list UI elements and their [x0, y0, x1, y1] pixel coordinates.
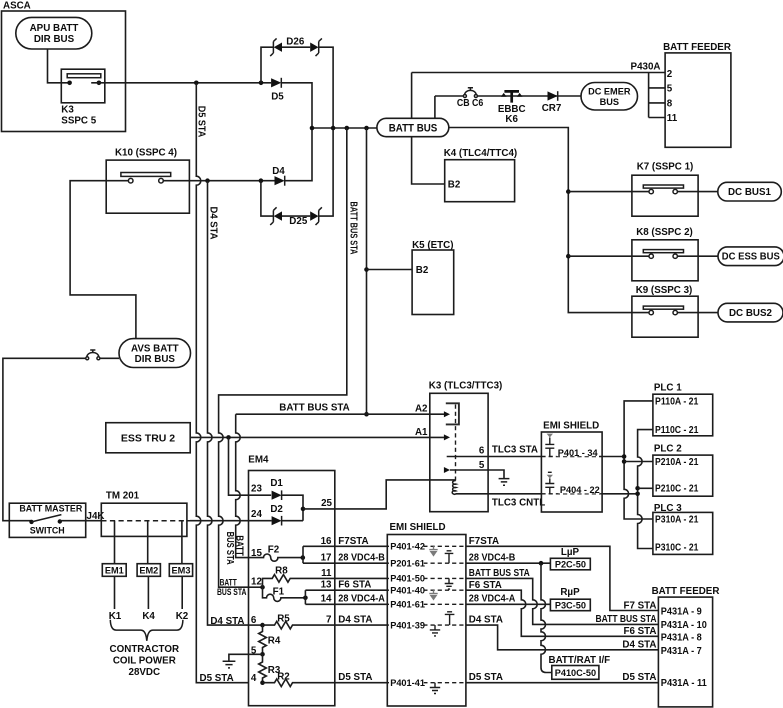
svg-text:2: 2 — [667, 69, 673, 80]
feedthrough capacitor (P404-22) — [545, 472, 554, 494]
svg-text:F1: F1 — [273, 587, 285, 598]
net label BATT BUS STA (vertical, near EM4) — [224, 532, 245, 565]
svg-text:P431A - 11: P431A - 11 — [661, 678, 708, 689]
box LuP P2C-50 — [550, 547, 590, 570]
svg-text:D5 STA: D5 STA — [622, 672, 656, 683]
wire BATT BUS row — [312, 127, 377, 129]
svg-text:AVS BATT: AVS BATT — [131, 343, 179, 354]
svg-text:BATT: BATT — [220, 578, 237, 588]
wire K7 to DC BUS1 — [677, 191, 717, 193]
svg-text:EM2: EM2 — [139, 566, 158, 576]
wire APU bus to K3 contact — [48, 49, 70, 83]
svg-text:DC ESS BUS: DC ESS BUS — [722, 252, 780, 263]
bus DC EMER BUS — [581, 83, 638, 111]
circuit breaker CB C6 — [457, 88, 484, 109]
coil K3 — [452, 481, 456, 495]
node pin 4 junction — [260, 680, 265, 685]
svg-text:DIR BUS: DIR BUS — [135, 354, 176, 365]
wire P401-50 dashed row — [387, 577, 466, 579]
svg-text:BATT BUS: BATT BUS — [389, 123, 438, 135]
svg-text:P201-61: P201-61 — [390, 558, 425, 568]
svg-text:DC BUS1: DC BUS1 — [728, 187, 772, 198]
node pin 6 junction — [260, 623, 265, 628]
feedthrough capacitor (gray, P401-42) — [429, 546, 437, 556]
svg-text:TLC3 STA: TLC3 STA — [492, 444, 538, 455]
svg-text:EM4: EM4 — [248, 454, 269, 465]
wire K9 to DC BUS2 — [677, 312, 718, 314]
wire pin 5 to ground — [229, 654, 263, 661]
wire TLC3 CNTL to PLC column — [602, 493, 638, 495]
wire TM drop to EM3 — [181, 521, 183, 564]
svg-text:K9 (SSPC 3): K9 (SSPC 3) — [636, 285, 693, 296]
node D1-D2 join — [301, 507, 306, 512]
svg-text:F6 STA: F6 STA — [469, 580, 502, 591]
svg-text:TM 201: TM 201 — [106, 491, 140, 502]
wire P401-40 dashed row — [387, 589, 466, 591]
svg-text:LµP: LµP — [561, 547, 580, 558]
node K5 branch junction — [364, 267, 369, 272]
svg-text:D4 STA: D4 STA — [210, 616, 244, 627]
svg-text:D5: D5 — [271, 91, 284, 102]
connector P430A pin bus — [649, 73, 666, 118]
wire K8 to DC ESS BUS — [677, 255, 718, 257]
wire F7STA to feeder — [466, 546, 659, 610]
node pin 12 junction — [260, 585, 265, 590]
svg-text:P401-42: P401-42 — [390, 542, 425, 552]
svg-text:K3 (TLC3/TTC3): K3 (TLC3/TTC3) — [429, 381, 502, 392]
svg-text:CB C6: CB C6 — [457, 98, 484, 109]
relay K3 (SSPC 5) — [61, 69, 105, 127]
wire P201-61 dashed row — [387, 562, 466, 564]
wire DC EMER row — [435, 95, 581, 97]
node K8 junction — [566, 254, 571, 259]
wire K10 output to D4 anode — [163, 180, 274, 182]
box ESS TRU 2 — [106, 423, 190, 453]
node D4 STA junction — [205, 178, 210, 183]
pin arrow A2 — [444, 411, 450, 417]
wire switch to TM 201 — [60, 520, 102, 523]
wire TM drop to EM1 — [114, 521, 116, 564]
fuse F1 — [263, 587, 306, 602]
wire branch to K5 B2 — [367, 269, 413, 271]
wire D2 cathode — [282, 520, 303, 522]
node ESS TRU branch junction — [226, 435, 231, 440]
wire J4K dashed row through TM 201 — [101, 520, 190, 522]
wire 28 VDC4-B to LuP — [466, 562, 551, 564]
svg-text:P401-39: P401-39 — [390, 620, 425, 630]
svg-text:DC EMER: DC EMER — [588, 87, 631, 97]
contact actuator dashed line — [455, 405, 457, 481]
svg-text:K10 (SSPC 4): K10 (SSPC 4) — [115, 148, 177, 159]
box BATT/RAT I/F P410C-50 — [549, 655, 611, 680]
svg-text:EM1: EM1 — [105, 566, 124, 576]
wire D5 cathode to BATT BUS — [281, 83, 312, 128]
box EM3 — [169, 564, 192, 577]
relay K5 (ETC) — [412, 240, 454, 315]
wire EM3 to K2 — [181, 576, 183, 609]
svg-text:14: 14 — [321, 594, 332, 605]
box BATT FEEDER (bottom) — [652, 586, 720, 707]
svg-text:D4 STA: D4 STA — [469, 615, 503, 626]
node F1 output junction — [303, 596, 308, 601]
svg-text:P431A - 7: P431A - 7 — [661, 646, 703, 657]
node D5 STA junction — [194, 81, 199, 86]
svg-text:F2: F2 — [268, 545, 280, 556]
wire P401-39 dashed row — [387, 624, 466, 626]
svg-text:D1: D1 — [270, 478, 283, 489]
wire branch to P210C — [638, 487, 653, 489]
wire pin 24 inside — [249, 520, 272, 522]
svg-text:DC BUS2: DC BUS2 — [729, 308, 773, 319]
box ASCA — [2, 11, 126, 132]
svg-text:K7 (SSPC 1): K7 (SSPC 1) — [637, 161, 694, 172]
box PLC 3 — [653, 503, 713, 554]
wire pin 25 row — [303, 508, 335, 510]
node LuP branch junction — [539, 561, 544, 566]
wire branch down to BATT/RAT I/F — [541, 563, 552, 672]
ground capacitor (below P401-39) — [430, 625, 440, 636]
svg-text:A1: A1 — [415, 427, 428, 438]
node pin 5 junction — [260, 652, 265, 657]
svg-text:6: 6 — [251, 615, 257, 626]
diode D1 — [270, 478, 283, 500]
node line B junction — [635, 486, 640, 491]
svg-text:D4 STA: D4 STA — [622, 640, 656, 651]
svg-text:BATT BUS STA: BATT BUS STA — [596, 614, 657, 625]
wire BATT BUS STA to feeder — [466, 578, 659, 624]
wire pin 6 inside — [249, 624, 263, 626]
svg-text:CONTRACTOR: CONTRACTOR — [110, 644, 179, 655]
resistor R5 — [263, 614, 388, 629]
svg-text:P430A: P430A — [631, 61, 661, 72]
wire branch to P210A — [624, 461, 653, 463]
wire branch down to EM4 pin 23 — [229, 437, 272, 495]
svg-text:D5 STA: D5 STA — [200, 673, 234, 684]
svg-text:A2: A2 — [415, 404, 428, 415]
diode D4 — [272, 166, 285, 186]
relay K9 (SSPC 3) — [632, 285, 698, 337]
box PLC 2 — [653, 444, 713, 497]
svg-text:K3: K3 — [61, 105, 74, 116]
wire A2 corner down to EM4 pin 15 — [236, 414, 249, 557]
wire TM drop to EM2 — [147, 521, 149, 564]
svg-text:D25: D25 — [289, 216, 308, 227]
svg-text:D5 STA: D5 STA — [338, 672, 372, 683]
node line A junction — [622, 454, 627, 459]
resistor R3 — [259, 654, 281, 682]
svg-text:BATT FEEDER: BATT FEEDER — [663, 42, 731, 53]
svg-text:P401-61: P401-61 — [390, 600, 425, 610]
ground (pin 5) — [223, 661, 236, 668]
svg-text:RµP: RµP — [560, 587, 580, 598]
svg-text:R5: R5 — [277, 614, 290, 625]
svg-text:F7 STA: F7 STA — [623, 600, 656, 611]
contactor EBBC K6 — [498, 91, 526, 125]
wire D25 left leg — [261, 181, 274, 216]
svg-text:P410C-50: P410C-50 — [555, 668, 596, 678]
node junction — [310, 126, 315, 131]
switch BATT MASTER SWITCH — [9, 503, 85, 537]
svg-text:D5 STA: D5 STA — [469, 672, 503, 683]
diode D5 — [271, 78, 284, 103]
svg-text:EMI SHIELD: EMI SHIELD — [390, 522, 446, 533]
svg-text:F6 STA: F6 STA — [623, 626, 656, 637]
svg-text:BATT BUS STA: BATT BUS STA — [347, 202, 358, 255]
svg-text:D2: D2 — [270, 504, 283, 515]
fuse F2 — [249, 545, 303, 562]
svg-text:K6: K6 — [505, 114, 518, 125]
wire pin 17 row — [303, 562, 387, 564]
feedthrough capacitor (P401-39 upper) — [445, 612, 455, 625]
wire D5 STA to feeder — [466, 682, 659, 684]
svg-text:P310A - 21: P310A - 21 — [655, 514, 699, 525]
relay K8 (SSPC 2) — [632, 227, 698, 281]
box EM4 — [248, 454, 334, 705]
svg-text:APU BATT: APU BATT — [30, 23, 79, 34]
svg-text:ESS TRU 2: ESS TRU 2 — [121, 432, 175, 444]
wire pins 16/17 join — [302, 546, 304, 563]
svg-text:BATT/RAT I/F: BATT/RAT I/F — [549, 655, 611, 666]
wire coil feed from EM4 pin 25 — [335, 480, 456, 509]
svg-text:BATT BUS STA: BATT BUS STA — [279, 403, 349, 414]
wire BATT BUS STA to EM4 pin 12 — [219, 128, 347, 587]
svg-text:P431A - 9: P431A - 9 — [661, 607, 703, 618]
svg-text:P401 - 34: P401 - 34 — [558, 448, 599, 458]
wire J4K row to EM4 pin 24 — [190, 520, 249, 522]
wire breaker to BATT MASTER SWITCH — [3, 358, 86, 520]
svg-text:P431A - 10: P431A - 10 — [661, 620, 708, 631]
wire D1 cathode to pin 25 join — [282, 495, 303, 521]
wire ESS TRU 2 output to A1 — [190, 436, 444, 438]
diode CR7 — [542, 91, 562, 114]
svg-text:B2: B2 — [448, 180, 461, 191]
svg-text:D4: D4 — [272, 166, 285, 177]
wire D4 STA vertical run — [208, 181, 249, 625]
svg-text:K4: K4 — [142, 611, 155, 622]
diode D2 — [270, 504, 283, 525]
svg-text:COIL POWER: COIL POWER — [113, 655, 176, 666]
box EM1 — [102, 564, 126, 577]
svg-text:K5 (ETC): K5 (ETC) — [412, 240, 453, 251]
bus AVS BATT DIR BUS — [119, 339, 191, 368]
wire to K7 — [568, 191, 649, 193]
svg-text:EM3: EM3 — [172, 566, 191, 576]
wire EM2 to K4 — [147, 576, 149, 609]
bus BATT BUS — [377, 118, 449, 136]
wire D25 right leg to BATT BUS — [319, 128, 333, 216]
svg-text:28 VDC4-A: 28 VDC4-A — [338, 594, 385, 605]
wire pin 16 row — [303, 545, 387, 547]
wire A2 row (BATT BUS STA) — [236, 413, 445, 415]
relay K4 (TLC4/TTC4) — [444, 148, 517, 202]
box RuP P3C-50 — [550, 587, 590, 611]
svg-text:28VDC: 28VDC — [129, 667, 161, 678]
node K7 junction — [566, 189, 571, 194]
wire feed down to BATT BUS oval — [412, 73, 445, 185]
wire D5 STA vertical run — [196, 83, 248, 683]
svg-text:17: 17 — [321, 553, 332, 564]
wire D26 left leg — [261, 47, 273, 83]
svg-text:BATT BUS STA: BATT BUS STA — [469, 568, 530, 579]
svg-text:PLC 2: PLC 2 — [654, 444, 682, 455]
svg-text:DIR BUS: DIR BUS — [34, 34, 75, 45]
wire BATT BUS down to A2 row — [366, 128, 368, 414]
wire D4 cathode to BATT BUS — [285, 128, 312, 181]
brace contactor group — [110, 620, 183, 641]
svg-text:P401-40: P401-40 — [390, 585, 425, 595]
node D26 tap junction — [259, 81, 264, 86]
resistor R2 — [263, 672, 388, 687]
svg-text:P401-50: P401-50 — [390, 574, 425, 584]
wire K10 left to AVS bus — [70, 181, 136, 339]
svg-text:SSPC 5: SSPC 5 — [61, 116, 96, 127]
svg-text:K4 (TLC4/TTC4): K4 (TLC4/TTC4) — [444, 148, 517, 159]
svg-text:11: 11 — [321, 568, 332, 579]
node line B feed junction — [635, 492, 640, 497]
box BATT FEEDER (top) — [663, 42, 731, 148]
svg-text:P110A - 21: P110A - 21 — [655, 396, 699, 407]
relay K3 (TLC3/TTC3) — [429, 381, 502, 512]
node junction — [364, 126, 369, 131]
wire TLC3 CNTL (coil return) — [456, 493, 542, 495]
wire AVS bus left to breaker — [100, 357, 119, 359]
wire P401-41 dashed row — [387, 682, 466, 684]
svg-text:BATT FEEDER: BATT FEEDER — [652, 586, 720, 597]
feedthrough capacitor (gray, P401-40) — [429, 590, 437, 600]
svg-text:P2C-50: P2C-50 — [555, 559, 586, 569]
svg-text:BUS STA: BUS STA — [224, 532, 235, 565]
svg-text:R8: R8 — [275, 566, 288, 577]
svg-text:28 VDC4-A: 28 VDC4-A — [469, 594, 516, 605]
diode D26 (bidirectional pair) — [270, 37, 322, 56]
box PLC 1 — [653, 382, 713, 436]
resistor R4 — [259, 625, 281, 654]
svg-text:F7STA: F7STA — [338, 536, 368, 547]
svg-text:R4: R4 — [268, 636, 281, 647]
svg-text:5: 5 — [667, 83, 673, 94]
label CONTRACTOR COIL POWER 28VDC — [110, 644, 179, 678]
wire F6 STA to feeder — [466, 590, 659, 636]
wire BATT BUS trunk to SSPCs — [449, 128, 649, 313]
wire D26 right leg to BATT BUS — [319, 47, 333, 128]
feedthrough capacitor (P201-61) — [445, 551, 454, 563]
relay K7 (SSPC 1) — [632, 161, 698, 216]
svg-text:8: 8 — [667, 98, 673, 109]
wire pin 12 inside — [249, 586, 263, 588]
box TM 201 — [101, 491, 187, 537]
svg-text:D26: D26 — [286, 37, 305, 48]
node line A branch junction — [622, 459, 627, 464]
node junction — [345, 126, 350, 131]
wire P401-61 dashed row — [387, 603, 466, 605]
wire pin 13 row — [305, 589, 387, 591]
svg-text:BUS STA: BUS STA — [217, 587, 247, 597]
wire to K8 — [568, 255, 649, 257]
wire TLC3 STA to PLC column — [602, 456, 624, 458]
wire P404-22 dashed row — [541, 493, 602, 495]
wire P401-34 dashed row — [541, 456, 602, 458]
svg-text:P404 - 22: P404 - 22 — [560, 485, 600, 495]
svg-text:11: 11 — [667, 113, 678, 124]
svg-text:28 VDC4-B: 28 VDC4-B — [338, 553, 385, 564]
feedthrough capacitor (P401-34) — [545, 434, 554, 457]
wire pin 14 row — [305, 603, 387, 605]
svg-text:SWITCH: SWITCH — [30, 526, 65, 536]
svg-text:6: 6 — [479, 446, 485, 457]
wire top feed row to P430A — [412, 72, 665, 74]
bus DC ESS BUS — [718, 247, 783, 266]
bus DC BUS2 — [718, 303, 783, 322]
relay K10 (SSPC 4) — [106, 148, 189, 214]
svg-text:13: 13 — [321, 580, 332, 591]
svg-text:P3C-50: P3C-50 — [555, 600, 586, 610]
svg-text:P210A - 21: P210A - 21 — [655, 457, 699, 468]
wire K3 output to D5 anode — [91, 82, 271, 84]
bus APU BATT DIR BUS — [16, 17, 92, 49]
feedthrough capacitor (P401-50) — [445, 578, 454, 589]
box EM2 — [137, 564, 160, 577]
svg-text:D4 STA: D4 STA — [207, 207, 218, 240]
shield EMI SHIELD (bottom) — [387, 522, 466, 706]
wire 28 VDC4-A to RuP — [466, 603, 551, 605]
diode D25 (bidirectional pair) — [270, 207, 322, 227]
wire PLC feed line B — [638, 430, 653, 549]
svg-text:EMI SHIELD: EMI SHIELD — [543, 421, 599, 432]
svg-text:P401-41: P401-41 — [390, 678, 425, 688]
svg-text:BATT MASTER: BATT MASTER — [19, 504, 83, 514]
svg-text:PLC 1: PLC 1 — [654, 382, 682, 393]
svg-text:16: 16 — [321, 536, 332, 547]
wire TLC3 STA (pin 6) — [447, 456, 542, 458]
svg-text:F7STA: F7STA — [469, 536, 499, 547]
node junction — [331, 126, 336, 131]
resistor R8 — [263, 566, 388, 588]
svg-text:24: 24 — [251, 509, 262, 520]
svg-text:B2: B2 — [416, 265, 429, 276]
pin arrow A1 — [444, 434, 450, 440]
svg-text:23: 23 — [251, 483, 262, 494]
node A2 row junction — [364, 412, 369, 417]
wire pin 5 to ground — [450, 470, 504, 478]
svg-text:BUS: BUS — [600, 97, 619, 107]
svg-text:P110C - 21: P110C - 21 — [655, 425, 699, 436]
node D25 tap junction — [259, 178, 264, 183]
svg-text:D4 STA: D4 STA — [338, 615, 372, 626]
ground capacitor (below P401-41) — [430, 683, 440, 694]
svg-text:5: 5 — [479, 460, 485, 471]
wire pins 13/14 join — [304, 590, 306, 604]
svg-text:K8 (SSPC 2): K8 (SSPC 2) — [636, 227, 693, 238]
shield EMI SHIELD (right of K3) — [541, 421, 602, 512]
svg-text:F6 STA: F6 STA — [338, 580, 371, 591]
svg-text:4: 4 — [251, 673, 257, 684]
svg-text:7: 7 — [326, 615, 332, 626]
svg-text:P310C - 21: P310C - 21 — [655, 542, 699, 553]
svg-text:CR7: CR7 — [542, 103, 562, 114]
wire P401-42 dashed row — [387, 545, 466, 547]
pin arrow 5 — [444, 467, 450, 473]
bus DC BUS1 — [718, 182, 782, 201]
wire D4 STA to feeder — [466, 625, 659, 650]
node F2 output junction — [301, 555, 306, 560]
svg-text:25: 25 — [321, 498, 332, 509]
svg-text:ASCA: ASCA — [3, 0, 31, 11]
wire EM1 to K1 — [114, 576, 116, 609]
svg-text:P431A - 8: P431A - 8 — [661, 632, 703, 643]
svg-text:P210C - 21: P210C - 21 — [655, 484, 699, 495]
ground (pin 5) — [499, 479, 510, 486]
circuit breaker (AVS) — [86, 350, 100, 360]
